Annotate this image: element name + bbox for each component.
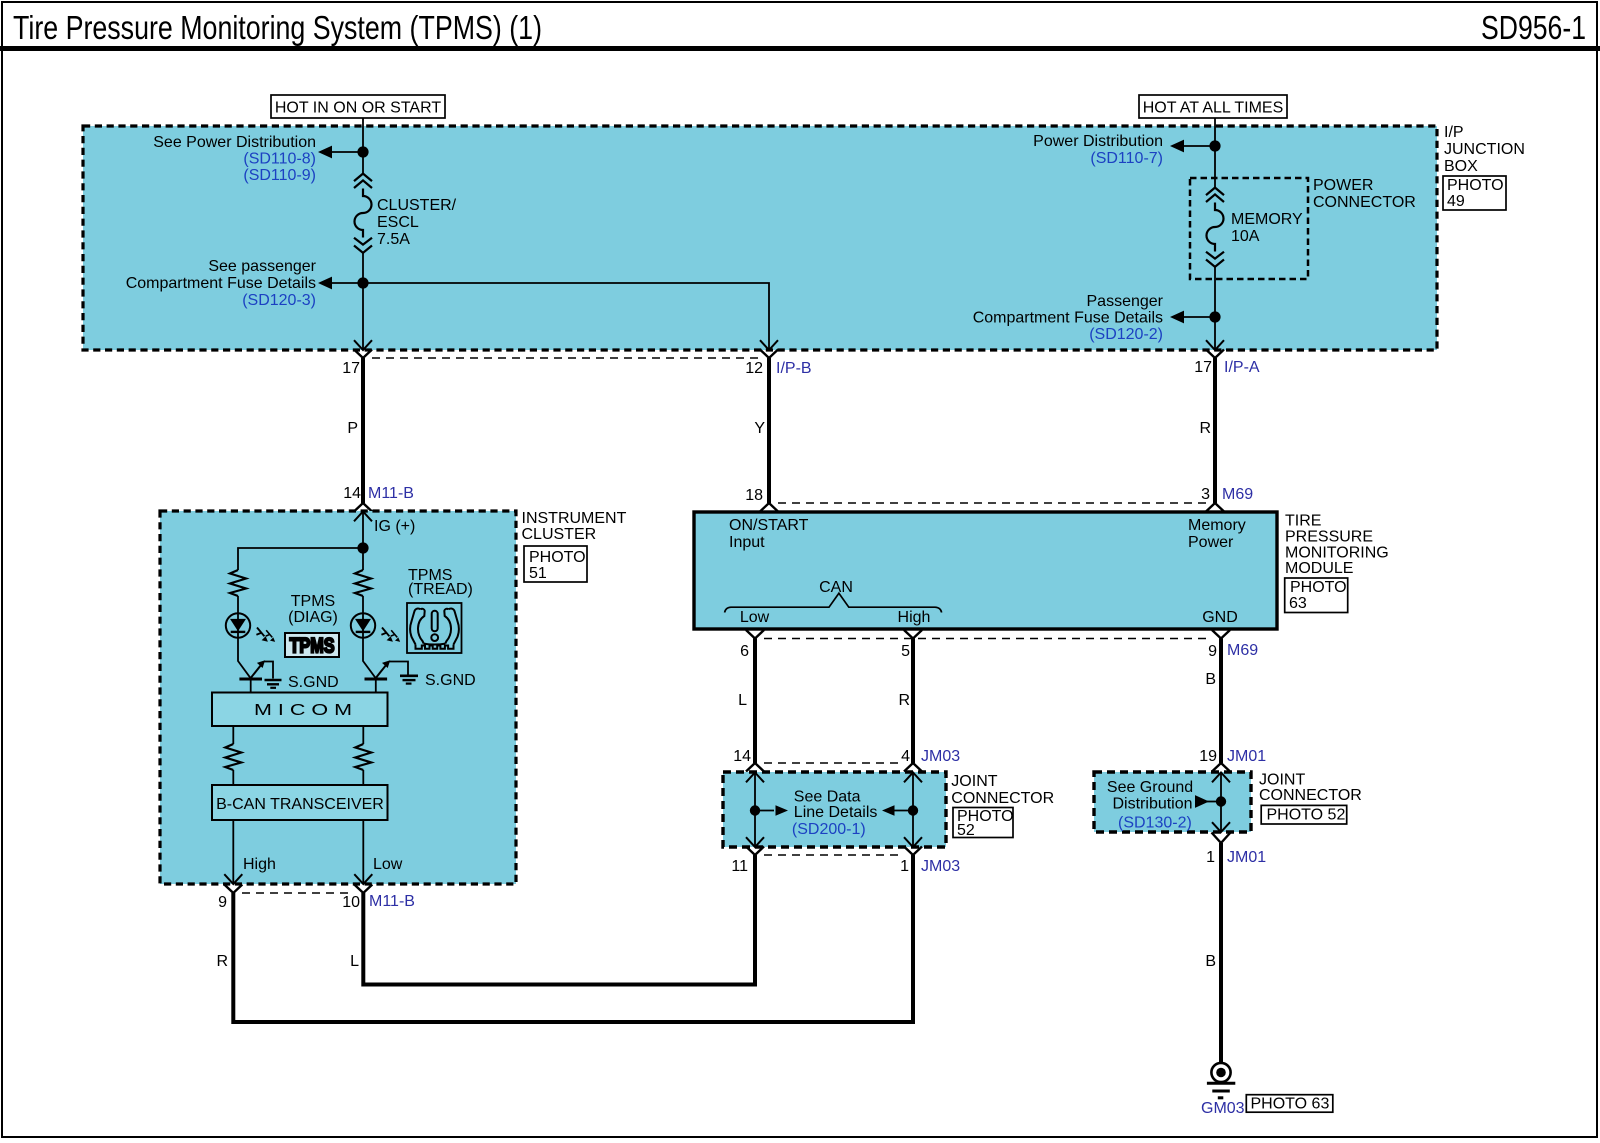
wire R xyxy=(1213,358,1217,503)
pin 18 plug module xyxy=(760,503,778,512)
pin 5 socket module xyxy=(904,630,922,639)
svg-text:Power Distribution: Power Distribution xyxy=(1033,133,1163,150)
svg-text:INSTRUMENT: INSTRUMENT xyxy=(522,510,627,527)
svg-text:CONNECTOR: CONNECTOR xyxy=(1313,194,1416,211)
pin 17 socket I/P-A right xyxy=(1206,350,1224,359)
svg-text:JM01: JM01 xyxy=(1227,748,1266,765)
svg-text:(SD110-7): (SD110-7) xyxy=(1090,150,1163,167)
svg-text:(DIAG): (DIAG) xyxy=(288,609,338,626)
svg-text:(SD200-1): (SD200-1) xyxy=(792,821,866,838)
resistor right LED xyxy=(355,570,371,596)
svg-text:PHOTO 63: PHOTO 63 xyxy=(1251,1096,1330,1113)
resistor left LED xyxy=(230,570,246,596)
label PHOTO 52 (JM01) xyxy=(1261,805,1347,824)
svg-text:TPMS: TPMS xyxy=(291,593,335,610)
svg-text:18: 18 xyxy=(745,487,763,504)
arrow out of cluster pin 10 xyxy=(354,874,372,884)
wire B-CAN to pin 9 xyxy=(232,820,234,883)
svg-text:CLUSTER/: CLUSTER/ xyxy=(377,197,457,214)
svg-text:9: 9 xyxy=(1208,643,1217,660)
svg-text:R: R xyxy=(216,953,228,970)
arrow out of cluster pin 9 xyxy=(224,874,242,884)
fuse MEMORY 10A xyxy=(1206,188,1224,267)
svg-text:M I C O M: M I C O M xyxy=(254,702,352,719)
data line arrow left xyxy=(894,810,913,812)
svg-text:POWER: POWER xyxy=(1313,177,1373,194)
power connector box (dashed) xyxy=(1190,178,1308,279)
svg-text:14: 14 xyxy=(733,748,751,765)
svg-text:BOX: BOX xyxy=(1444,158,1478,175)
connector link dash M69 top xyxy=(778,502,1206,504)
svg-text:B: B xyxy=(1205,671,1216,688)
svg-text:L: L xyxy=(350,953,359,970)
svg-text:TIRE: TIRE xyxy=(1285,513,1321,530)
svg-text:Passenger: Passenger xyxy=(1087,293,1164,310)
arrow to Passenger Compartment Fuse Details xyxy=(1170,311,1184,324)
svg-text:5: 5 xyxy=(901,643,910,660)
svg-text:11: 11 xyxy=(731,858,748,875)
svg-text:PHOTO: PHOTO xyxy=(529,549,586,566)
junction node ground distribution xyxy=(1216,796,1226,806)
label PHOTO 52 (JM03) xyxy=(953,808,1014,840)
svg-text:I/P-B: I/P-B xyxy=(776,360,812,377)
svg-text:SD956-1: SD956-1 xyxy=(1481,9,1586,46)
svg-text:CONNECTOR: CONNECTOR xyxy=(951,790,1054,807)
svg-text:9: 9 xyxy=(218,894,227,911)
svg-text:PHOTO 52: PHOTO 52 xyxy=(1267,807,1346,824)
svg-text:S.GND: S.GND xyxy=(288,674,339,691)
svg-text:52: 52 xyxy=(957,822,975,839)
arrow to See Power Distribution xyxy=(318,146,332,159)
svg-text:51: 51 xyxy=(529,565,547,582)
junction node: passenger fuse branch xyxy=(357,277,368,288)
svg-text:JM01: JM01 xyxy=(1227,849,1266,866)
svg-text:(SD120-3): (SD120-3) xyxy=(242,292,316,309)
wire from HOT IN ON OR START to fuse xyxy=(362,118,364,174)
signal ground left xyxy=(265,680,282,688)
wire from HOT AT ALL TIMES to fuse xyxy=(1214,118,1216,188)
wire fuse to pin 17 xyxy=(362,253,364,349)
wire IG branch to left LED xyxy=(238,548,363,570)
label PHOTO 63 (GM03) xyxy=(1246,1095,1333,1113)
svg-text:CLUSTER: CLUSTER xyxy=(522,526,597,543)
svg-text:Memory: Memory xyxy=(1188,517,1246,534)
node label HOT AT ALL TIMES xyxy=(1139,95,1287,118)
light emission arrows right LED xyxy=(381,628,393,642)
svg-text:M69: M69 xyxy=(1222,486,1253,503)
wire right LED to transistor xyxy=(363,596,376,678)
tire pressure monitoring module box xyxy=(694,512,1277,629)
transistor driver right xyxy=(365,660,409,692)
arrow into pin 17 right xyxy=(1206,340,1224,350)
junction node IG branch xyxy=(357,542,368,553)
svg-text:(TREAD): (TREAD) xyxy=(408,581,473,598)
arrow to See passenger Compartment Fuse Details xyxy=(318,277,332,290)
wire branch to See Power Distribution xyxy=(332,151,363,153)
arrow to Power Distribution xyxy=(1170,140,1184,153)
CAN brace xyxy=(725,593,942,612)
svg-text:Distribution: Distribution xyxy=(1113,796,1193,813)
wire Y xyxy=(767,358,771,503)
svg-text:ON/START: ON/START xyxy=(729,517,809,534)
svg-text:Input: Input xyxy=(729,534,765,551)
TPMS badge indicator xyxy=(285,633,339,658)
pin 10 socket M11-B xyxy=(354,885,372,894)
svg-text:GND: GND xyxy=(1202,609,1238,626)
wire CAN Low: pin 10 cluster to pin 11 JM03 xyxy=(363,855,755,985)
fuse CLUSTER/ESCL 7.5A xyxy=(354,174,372,253)
pin 1 socket JM01 xyxy=(1212,833,1231,844)
wire P xyxy=(361,358,365,503)
svg-text:1: 1 xyxy=(900,858,909,875)
svg-text:19: 19 xyxy=(1199,748,1217,765)
TPMS tread warning icon xyxy=(407,603,462,653)
svg-text:See Data: See Data xyxy=(794,789,861,806)
node label HOT IN ON OR START xyxy=(271,95,445,118)
data line arrow right xyxy=(755,810,774,812)
svg-text:P: P xyxy=(347,420,358,437)
svg-text:TPMS: TPMS xyxy=(290,635,335,658)
pin 9 socket M69 xyxy=(1212,630,1230,639)
svg-text:MONITORING: MONITORING xyxy=(1285,545,1389,562)
wire branch to Power Distribution xyxy=(1184,145,1215,147)
svg-text:PRESSURE: PRESSURE xyxy=(1285,529,1373,546)
LED TPMS TREAD indicator xyxy=(351,613,375,637)
svg-text:GM03: GM03 xyxy=(1201,1100,1245,1117)
svg-text:Compartment Fuse Details: Compartment Fuse Details xyxy=(973,310,1163,327)
svg-text:6: 6 xyxy=(740,643,749,660)
svg-text:IG (+): IG (+) xyxy=(374,518,415,535)
svg-text:HOT IN ON OR START: HOT IN ON OR START xyxy=(275,100,441,117)
resistor CAN right xyxy=(355,744,371,770)
MICOM block xyxy=(212,693,388,727)
label PHOTO 51 xyxy=(524,546,587,582)
junction node: power distribution (right) xyxy=(1209,140,1220,151)
svg-text:JM03: JM03 xyxy=(921,858,960,875)
wire MICOM to CAN resistor right xyxy=(362,726,364,744)
label PHOTO 49 xyxy=(1443,176,1506,210)
svg-text:17: 17 xyxy=(342,360,360,377)
B-CAN TRANSCEIVER block xyxy=(212,785,388,820)
connector link dash I/P-B xyxy=(372,357,760,359)
svg-text:MODULE: MODULE xyxy=(1285,560,1353,577)
svg-text:R: R xyxy=(1199,420,1211,437)
svg-text:10: 10 xyxy=(342,894,360,911)
svg-text:JM03: JM03 xyxy=(921,748,960,765)
svg-text:Power: Power xyxy=(1188,534,1234,551)
svg-text:JOINT: JOINT xyxy=(1259,772,1305,789)
svg-text:Low: Low xyxy=(740,609,770,626)
svg-text:JOINT: JOINT xyxy=(951,773,997,790)
wire branch to Passenger Compartment Fuse Details xyxy=(1184,316,1215,318)
svg-text:(SD130-2): (SD130-2) xyxy=(1118,815,1192,832)
wire fuse to pin 17 right xyxy=(1214,267,1216,349)
svg-text:M11-B: M11-B xyxy=(369,893,415,910)
svg-text:CAN: CAN xyxy=(819,579,853,596)
pin 11 socket JM03 xyxy=(746,847,764,856)
svg-text:R: R xyxy=(898,692,910,709)
svg-text:I/P-A: I/P-A xyxy=(1224,359,1260,376)
joint connector JM03 box (dashed cyan) xyxy=(723,772,946,847)
ground GM03 xyxy=(1207,1063,1235,1098)
ground distribution arrow xyxy=(1206,801,1221,803)
svg-text:M69: M69 xyxy=(1227,642,1258,659)
signal ground right xyxy=(400,676,418,684)
connector link dash JM03 bottom xyxy=(764,854,904,856)
svg-text:(SD120-2): (SD120-2) xyxy=(1089,326,1163,343)
svg-text:3: 3 xyxy=(1201,486,1210,503)
junction node data line right xyxy=(908,805,918,815)
svg-text:(SD110-9): (SD110-9) xyxy=(243,167,316,184)
svg-text:Y: Y xyxy=(754,420,765,437)
svg-text:I/P: I/P xyxy=(1444,124,1464,141)
svg-text:B-CAN TRANSCEIVER: B-CAN TRANSCEIVER xyxy=(216,796,384,813)
svg-text:PHOTO: PHOTO xyxy=(1447,177,1504,194)
wire CAN High: pin 9 cluster to pin 1 JM03 xyxy=(233,855,913,1022)
svg-text:Compartment Fuse Details: Compartment Fuse Details xyxy=(126,275,316,292)
svg-text:See passenger: See passenger xyxy=(208,258,316,275)
svg-text:49: 49 xyxy=(1447,193,1465,210)
wire R module to JM03 xyxy=(911,639,915,764)
svg-text:17: 17 xyxy=(1194,359,1212,376)
svg-text:High: High xyxy=(243,856,276,873)
I/P junction box (dashed cyan) xyxy=(83,126,1437,350)
svg-text:Tire Pressure Monitoring Syste: Tire Pressure Monitoring System (TPMS) (… xyxy=(13,9,542,46)
svg-text:MEMORY: MEMORY xyxy=(1231,211,1303,228)
svg-text:M11-B: M11-B xyxy=(368,485,414,502)
JM03 internal wire pin14 to pin11 xyxy=(754,773,756,847)
pin 6 socket module xyxy=(746,630,764,639)
connector link dash M11-B bottom xyxy=(242,892,354,894)
pin 17 socket I/P-B left xyxy=(354,350,372,359)
svg-text:High: High xyxy=(898,609,931,626)
svg-text:B: B xyxy=(1205,953,1216,970)
pin 14 plug JM03 xyxy=(746,763,764,772)
wire L module to JM03 xyxy=(753,639,757,764)
title separator bar xyxy=(0,46,1600,51)
svg-text:7.5A: 7.5A xyxy=(377,231,410,248)
pin 3 plug M69 xyxy=(1206,503,1224,512)
LED TPMS DIAG indicator xyxy=(226,613,250,637)
wire B module to JM01 xyxy=(1219,639,1223,764)
pin 9 socket M11-B xyxy=(224,885,242,894)
wire MICOM to CAN resistor left xyxy=(232,726,234,744)
svg-text:HOT AT ALL TIMES: HOT AT ALL TIMES xyxy=(1143,100,1284,117)
JM03 internal wire pin4 to pin1 xyxy=(912,773,914,847)
wire resistor to B-CAN right xyxy=(362,770,364,785)
pin 14 plug M11-B xyxy=(354,503,372,512)
junction node data line left xyxy=(750,805,760,815)
svg-text:JUNCTION: JUNCTION xyxy=(1444,141,1525,158)
svg-text:14: 14 xyxy=(343,485,361,502)
arrow into pin 12 xyxy=(760,340,778,350)
svg-text:4: 4 xyxy=(901,748,910,765)
wire branch to See passenger Compartment Fuse Details xyxy=(332,282,363,284)
svg-text:63: 63 xyxy=(1289,595,1307,612)
pin 19 plug JM01 xyxy=(1212,763,1230,772)
pin 4 plug JM03 xyxy=(904,763,922,772)
svg-text:Low: Low xyxy=(373,856,403,873)
instrument cluster box (dashed cyan) xyxy=(160,511,516,884)
svg-text:See Ground: See Ground xyxy=(1107,779,1193,796)
pin 12 socket I/P-B xyxy=(760,350,778,359)
wire IG(+) xyxy=(362,512,364,571)
svg-text:10A: 10A xyxy=(1231,228,1260,245)
label PHOTO 63 xyxy=(1285,578,1348,613)
arrow into pin 17 left xyxy=(354,340,372,350)
junction node: power distribution branch xyxy=(357,146,368,157)
wire B: pin 1 JM01 to ground xyxy=(1219,843,1223,1063)
junction node: passenger fuse branch (right) xyxy=(1209,311,1220,322)
joint connector JM01 box (dashed cyan) xyxy=(1094,772,1251,832)
svg-text:Line Details: Line Details xyxy=(794,804,878,821)
svg-text:L: L xyxy=(738,692,747,709)
svg-text:(SD110-8): (SD110-8) xyxy=(243,151,316,168)
svg-text:PHOTO: PHOTO xyxy=(1290,579,1347,596)
wire branch to pin 12 I/P-B xyxy=(363,283,769,349)
pin 1 socket JM03 xyxy=(904,847,922,856)
JM01 internal wire pin19 to pin1 xyxy=(1220,773,1222,832)
svg-text:CONNECTOR: CONNECTOR xyxy=(1259,787,1362,804)
light emission arrows left LED xyxy=(256,628,268,642)
svg-text:See Power Distribution: See Power Distribution xyxy=(153,134,316,151)
connector link dash JM03 top xyxy=(764,762,904,764)
connector link dash M69 bottom xyxy=(764,638,1212,640)
transistor driver left xyxy=(239,660,273,692)
wire left LED to transistor xyxy=(238,596,251,678)
svg-text:1: 1 xyxy=(1206,849,1215,866)
svg-text:S.GND: S.GND xyxy=(425,672,476,689)
svg-text:ESCL: ESCL xyxy=(377,214,419,231)
wire B-CAN to pin 10 xyxy=(362,820,364,883)
arrow into cluster at pin 14 xyxy=(354,512,372,522)
resistor CAN left xyxy=(225,744,241,770)
svg-text:12: 12 xyxy=(745,360,763,377)
wire resistor to B-CAN left xyxy=(232,770,234,785)
